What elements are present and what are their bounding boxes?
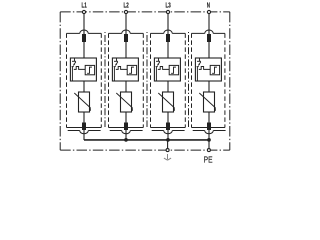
module L1 outline (solid top/bottom, dashed sides) (67, 33, 102, 127)
top clamp terminal of module N (207, 34, 211, 42)
wire bottom clamp to PE bus (L2) (125, 129, 127, 140)
label N (207, 1, 211, 9)
spark gap electrodes (N) (197, 58, 201, 81)
trigger connection step line (L2) (116, 67, 127, 70)
varistor L1 (79, 92, 90, 112)
wire clamp to spark-gap box (L1) (83, 42, 85, 58)
wire L1 terminal to top clamp (83, 14, 85, 34)
label L3 (165, 1, 171, 9)
module N outline (solid top/bottom, dashed sides) (192, 33, 225, 127)
label L2 (123, 1, 129, 9)
spark gap arrow head (N) (198, 64, 200, 66)
svg-text:L1: L1 (81, 1, 87, 9)
earth terminal node (166, 149, 169, 152)
spark gap electrodes (L2) (114, 58, 118, 81)
wire bottom clamp to PE bus (L3) (167, 129, 169, 140)
base contact hop (bottom) of module L2 (110, 131, 143, 134)
spark-gap unit box (L1) (70, 58, 96, 81)
svg-text:L3: L3 (165, 1, 171, 9)
base contact hop (bottom) of module N (193, 131, 226, 134)
bus junction node x=126 (124, 138, 128, 142)
svg-text:N: N (207, 1, 211, 9)
trigger step symbol (L1) (87, 67, 92, 73)
wire L3 terminal to top clamp (167, 14, 169, 34)
module separation line x=105 (dash-dot) (104, 32, 106, 127)
wire clamp to spark-gap box (L3) (167, 42, 169, 58)
wire varistor to bottom clamp (N) (208, 112, 210, 123)
terminal L1 (82, 10, 85, 13)
spark gap electrodes (L1) (72, 58, 76, 81)
trigger step symbol (N) (212, 67, 217, 73)
spark gap electrodes (L3) (156, 58, 160, 81)
trigger unit box (L1) (85, 65, 94, 74)
module L3 outline (solid top/bottom, dashed sides) (151, 33, 186, 127)
spark-gap unit box (N) (195, 58, 221, 81)
wire varistor to bottom clamp (L2) (125, 112, 127, 123)
bottom clamp terminal of module N (207, 123, 211, 131)
wire bus to PE terminal (208, 140, 210, 150)
svg-text:L2: L2 (123, 1, 129, 9)
module L2 outline (solid top/bottom, dashed sides) (109, 33, 144, 127)
varistor N (204, 92, 215, 112)
wire clamp to spark-gap box (L2) (125, 42, 127, 58)
base contact hop (top) of module L1 (80, 30, 88, 33)
spark-gap unit box (L2) (112, 58, 138, 81)
trigger connection step line (L1) (74, 67, 85, 70)
varistor L3 (163, 92, 174, 112)
terminal L2 (124, 10, 127, 13)
wire bottom clamp to PE bus (L1) (83, 129, 85, 140)
wire L2 terminal to top clamp (125, 14, 127, 34)
enclosure outline (dash-dot) (60, 12, 230, 150)
base contact hop (bottom) of module L3 (152, 131, 185, 134)
PE terminal (207, 149, 210, 152)
wire spark-gap box to varistor (L1) (83, 81, 85, 92)
label L1 (81, 1, 87, 9)
wire varistor to bottom clamp (L1) (83, 112, 85, 123)
top clamp terminal of module L3 (166, 34, 170, 42)
label PE (204, 155, 213, 165)
base contact hop (top) of module L3 (164, 30, 172, 33)
top clamp terminal of module L1 (82, 34, 86, 42)
bottom clamp terminal of module L2 (124, 123, 128, 131)
trigger unit box (N) (210, 65, 219, 74)
trigger step symbol (L2) (129, 67, 134, 73)
terminal L3 (166, 10, 169, 13)
trigger step symbol (L3) (171, 67, 176, 73)
spark-gap unit box (L3) (154, 58, 180, 81)
trigger connection step line (L3) (158, 67, 169, 70)
base contact hop (top) of module N (205, 30, 213, 33)
base contact hop (bottom) of module L1 (68, 131, 101, 134)
module separation line x=188.5 (dash-dot) (188, 32, 190, 127)
wire N terminal to top clamp (208, 14, 210, 34)
spark gap arrow head (L3) (157, 64, 159, 66)
trigger unit box (L2) (127, 65, 136, 74)
base contact hop (top) of module L2 (122, 30, 130, 33)
terminal N (207, 10, 210, 13)
wire clamp to spark-gap box (N) (208, 42, 210, 58)
module separation line x=147 (dash-dot) (146, 32, 148, 127)
bottom clamp terminal of module L1 (82, 123, 86, 131)
svg-text:PE: PE (204, 155, 213, 164)
trigger unit box (L3) (169, 65, 178, 74)
top clamp terminal of module L2 (124, 34, 128, 42)
varistor L2 (121, 92, 132, 112)
bottom clamp terminal of module L3 (166, 123, 170, 131)
wire bottom clamp to PE bus (N) (208, 129, 210, 140)
bus junction node x=209 (207, 138, 211, 142)
wire spark-gap box to varistor (N) (208, 81, 210, 92)
wire spark-gap box to varistor (L3) (167, 81, 169, 92)
PE bus wire (84, 139, 209, 141)
trigger connection step line (N) (199, 67, 210, 70)
wire bus to earth terminal (167, 140, 169, 150)
bus junction node x=168 (166, 138, 170, 142)
spark gap arrow head (L2) (115, 64, 117, 66)
wire varistor to bottom clamp (L3) (167, 112, 169, 123)
wire spark-gap box to varistor (L2) (125, 81, 127, 92)
earth arrow (ground) (164, 154, 171, 160)
spark gap arrow head (L1) (73, 64, 75, 66)
